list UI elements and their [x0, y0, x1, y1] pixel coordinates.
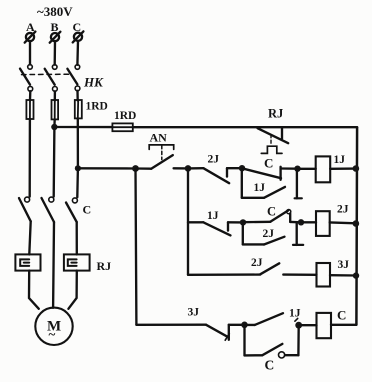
terminal A [25, 32, 36, 43]
svg-text:2J: 2J [337, 204, 349, 216]
contact 1J row4 [245, 313, 298, 325]
pushbutton AN [136, 145, 174, 169]
right bus vertical [355, 127, 358, 325]
wire pole C to heater [76, 222, 78, 254]
contactor C main contact pole A [19, 197, 31, 221]
svg-text:1J: 1J [289, 308, 301, 320]
wire pole B to motor [52, 222, 55, 308]
coil 1J [316, 156, 331, 182]
knife switch linkage dashed [22, 73, 72, 75]
node bus row1 [353, 165, 360, 172]
node row1 mid [239, 165, 245, 171]
knife switch HK pole B [45, 65, 58, 92]
node B control tap [51, 124, 57, 130]
contactor C main contact pole B [42, 197, 55, 222]
svg-text:C: C [83, 203, 92, 217]
wire AN to node [174, 167, 188, 169]
wire to coil 1J [298, 168, 316, 170]
wire phase A to switch [29, 41, 31, 64]
wire switch B to fuse [54, 91, 56, 100]
svg-text:C: C [337, 308, 346, 323]
svg-text:1J: 1J [207, 210, 219, 222]
node rail2 left [132, 165, 139, 172]
contact 2J row3 [188, 263, 317, 275]
wire switch C to fuse [76, 91, 79, 101]
node row2 right [298, 219, 304, 225]
svg-text:C: C [265, 358, 275, 373]
svg-text:1RD: 1RD [86, 101, 108, 113]
coil C [317, 313, 332, 338]
thermal relay RJ heater element pole C [64, 254, 90, 270]
parallel branch 2J row2 [243, 222, 303, 245]
svg-text:1RD: 1RD [114, 110, 136, 122]
fuse 1RD phase C [75, 100, 82, 118]
svg-text:~380V: ~380V [37, 4, 73, 19]
fuse 1RD phase A [26, 100, 33, 119]
branch vertical to row 4 [134, 169, 137, 325]
wire coil C to bus [331, 324, 356, 326]
node row2 mid [240, 219, 246, 225]
svg-text:3J: 3J [188, 307, 200, 319]
coil 3J [317, 263, 331, 287]
fuse 1RD control [112, 123, 132, 131]
knife switch HK pole C [67, 65, 80, 91]
svg-text:1J: 1J [254, 182, 266, 194]
svg-text:2J: 2J [251, 257, 263, 269]
node row4 mid [241, 322, 248, 329]
wire to coil C [299, 324, 317, 326]
parallel branch 1J row1 [242, 168, 302, 198]
control rail 1 wire from node B [54, 126, 112, 128]
thermal relay RJ heater element pole A [15, 254, 40, 270]
svg-text:C: C [264, 156, 273, 171]
node C control tap [75, 165, 81, 171]
node bus row2 [353, 220, 360, 227]
contact C NO row2 [243, 210, 301, 223]
wire fuse B down [53, 119, 56, 127]
contactor C main contact pole C [66, 198, 77, 222]
motor M [35, 308, 72, 345]
contact 1J row2 [188, 222, 243, 235]
contact 3J row4 [136, 325, 244, 341]
wire fuse C down [77, 118, 79, 168]
wire coil 3J to bus [330, 274, 356, 277]
svg-text:2J: 2J [208, 154, 220, 166]
wire B down to contactor [53, 127, 56, 197]
wire phase C to switch [76, 41, 79, 65]
svg-text:AN: AN [150, 131, 168, 145]
wire to coil 2J [301, 221, 316, 223]
contact C NC row1 [244, 167, 298, 180]
node rail2 branch [185, 165, 192, 172]
coil 2J [316, 211, 330, 236]
knife switch HK pole A [20, 65, 33, 92]
wire phase B to switch [54, 41, 57, 64]
terminal C [73, 31, 84, 42]
wire coil 2J to bus [330, 221, 356, 224]
node row1 right [294, 166, 300, 172]
parallel branch C row4 [245, 325, 299, 358]
fuse 1RD phase B [52, 100, 59, 119]
control rail 2 wire from node C [78, 167, 136, 170]
wire pole A to heater [29, 221, 30, 254]
wire heater A to motor [29, 271, 39, 309]
svg-text:1J: 1J [334, 154, 346, 166]
thermal relay RJ NC contact on rail 1 [258, 127, 289, 153]
svg-text:2J: 2J [263, 228, 275, 240]
svg-text:RJ: RJ [268, 107, 283, 121]
wire heater C to motor [68, 271, 76, 309]
node row4 right [295, 322, 302, 329]
svg-text:~: ~ [49, 327, 56, 342]
branch vertical to rows 2-3 [187, 168, 189, 274]
svg-text:HK: HK [83, 75, 104, 90]
wire fuse A down [29, 119, 32, 197]
svg-text:3J: 3J [338, 259, 350, 271]
contact 2J row1 [188, 168, 242, 183]
terminal B [50, 32, 61, 43]
wire C down to contactor [76, 168, 79, 197]
svg-text:C: C [267, 204, 276, 218]
svg-text:RJ: RJ [97, 259, 112, 273]
control rail 1 wire to right bus [133, 126, 357, 128]
node bus row3 [353, 272, 359, 278]
wire coil 1J to bus [330, 167, 356, 170]
wire switch A to fuse [29, 91, 32, 100]
